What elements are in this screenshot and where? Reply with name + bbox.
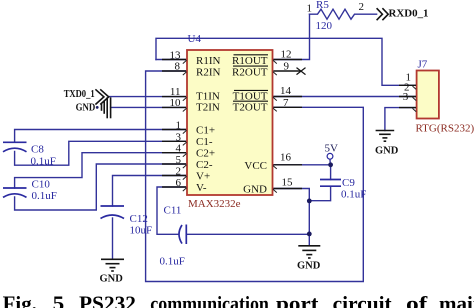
- svg-text:C9: C9: [342, 177, 355, 189]
- svg-text:C1-: C1-: [196, 136, 213, 148]
- svg-text:VCC: VCC: [244, 160, 267, 172]
- svg-text:6: 6: [176, 177, 182, 189]
- svg-text:R2IN: R2IN: [196, 66, 221, 78]
- svg-text:5: 5: [176, 154, 182, 166]
- svg-text:circuit: circuit: [333, 292, 392, 308]
- svg-text:1: 1: [307, 3, 313, 15]
- svg-text:Fig.: Fig.: [3, 292, 37, 308]
- svg-text:J7: J7: [418, 59, 428, 71]
- svg-text:3: 3: [403, 91, 409, 103]
- svg-text:2: 2: [176, 166, 182, 178]
- svg-text:0.1uF: 0.1uF: [341, 189, 366, 201]
- svg-text:R1OUT: R1OUT: [232, 55, 268, 67]
- svg-text:5V: 5V: [325, 143, 339, 155]
- svg-text:T2OUT: T2OUT: [233, 101, 268, 113]
- svg-text:GND: GND: [375, 146, 399, 157]
- svg-text:16: 16: [280, 152, 292, 164]
- svg-text:C8: C8: [31, 144, 44, 156]
- svg-text:port: port: [276, 292, 319, 308]
- svg-text:V-: V-: [196, 182, 207, 194]
- svg-text:GND: GND: [76, 102, 96, 113]
- svg-text:7: 7: [283, 97, 289, 109]
- svg-text:R2OUT: R2OUT: [232, 66, 268, 78]
- svg-text:5: 5: [53, 292, 65, 308]
- svg-text:C2+: C2+: [196, 148, 215, 160]
- svg-text:of: of: [406, 292, 428, 308]
- svg-text:MAX3232e: MAX3232e: [188, 198, 241, 210]
- svg-text:PS232: PS232: [79, 292, 136, 308]
- svg-text:C12: C12: [130, 213, 148, 225]
- svg-text:GND: GND: [100, 273, 124, 284]
- svg-text:0.1uF: 0.1uF: [160, 256, 185, 268]
- svg-text:10: 10: [170, 97, 182, 109]
- svg-text:0.1uF: 0.1uF: [32, 190, 57, 202]
- svg-text:V+: V+: [196, 170, 210, 182]
- svg-text:12: 12: [281, 49, 292, 61]
- svg-text:TXD0_1: TXD0_1: [64, 89, 95, 100]
- svg-text:RXD0_1: RXD0_1: [389, 9, 429, 20]
- svg-text:GND: GND: [297, 260, 321, 271]
- svg-text:main: main: [439, 292, 474, 308]
- svg-text:10uF: 10uF: [130, 224, 153, 236]
- svg-text:R5: R5: [316, 0, 329, 11]
- svg-text:14: 14: [280, 85, 292, 97]
- svg-text:C1+: C1+: [196, 125, 215, 137]
- svg-text:C10: C10: [32, 179, 51, 191]
- svg-text:0.1uF: 0.1uF: [31, 156, 56, 168]
- svg-text:3: 3: [176, 131, 182, 143]
- svg-text:RTG(RS232): RTG(RS232): [416, 123, 474, 135]
- svg-text:C11: C11: [164, 205, 182, 217]
- svg-text:U4: U4: [188, 33, 202, 45]
- svg-text:1: 1: [176, 120, 182, 132]
- svg-text:8: 8: [175, 61, 181, 73]
- svg-text:communication: communication: [150, 292, 269, 308]
- svg-text:120: 120: [316, 20, 333, 32]
- svg-text:R1IN: R1IN: [196, 55, 221, 67]
- svg-text:GND: GND: [243, 183, 267, 195]
- svg-text:2: 2: [359, 1, 365, 13]
- svg-text:C2-: C2-: [196, 159, 213, 171]
- svg-text:4: 4: [176, 143, 182, 155]
- svg-text:15: 15: [282, 177, 294, 189]
- svg-text:9: 9: [284, 61, 290, 73]
- svg-text:T2IN: T2IN: [196, 101, 220, 113]
